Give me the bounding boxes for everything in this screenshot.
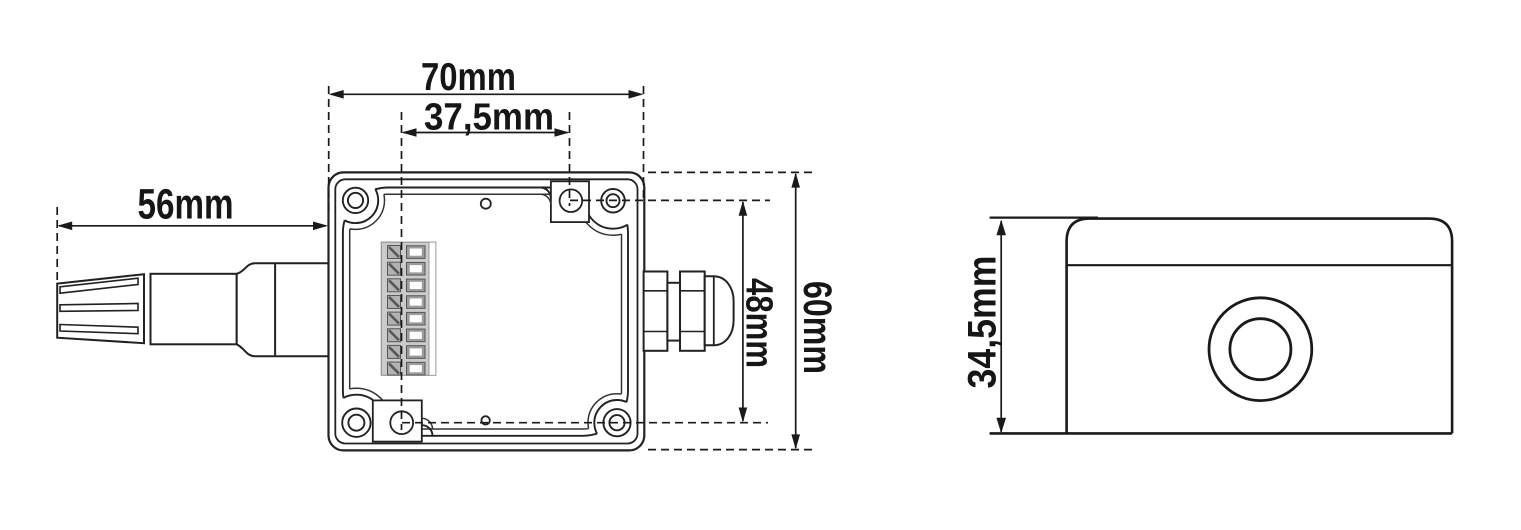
side view gland hole inner: [1230, 319, 1291, 380]
corner screw bottom-right: [603, 409, 630, 436]
side view gland hole outer: [1209, 298, 1312, 401]
enclosure outer body: [329, 172, 645, 450]
lid recess outline outer line: [343, 188, 628, 436]
corner screw top-right: [601, 189, 625, 213]
lid recess outline inner line: [350, 194, 622, 429]
gland facet lines: [644, 291, 705, 332]
screw boss arcs outer: [328, 173, 641, 451]
probe collar seam: [274, 263, 276, 356]
probe collar: [237, 263, 330, 356]
gland cap seam: [713, 276, 715, 345]
lid small hole top: [481, 199, 491, 209]
mounting plate top-right: [551, 181, 589, 222]
dimension 37,5mm: [404, 132, 568, 134]
svg-text:70mm: 70mm: [421, 56, 516, 99]
dimension 34,5mm: [1000, 221, 1002, 432]
probe filter tip: [57, 274, 144, 343]
dimension 56mm: [59, 225, 326, 227]
side view top extension line: [990, 217, 1098, 219]
terminal block: [381, 242, 436, 375]
svg-text:56mm: 56mm: [138, 180, 234, 228]
terminal block contacts column: [407, 246, 426, 375]
cable gland body: [644, 272, 705, 351]
corner screw top-left: [343, 188, 368, 213]
dimension 48mm: [742, 202, 744, 421]
probe cylinder: [151, 274, 237, 345]
corner screw bottom-left: [342, 409, 370, 437]
plate fillet curves bottom-left: [422, 425, 433, 436]
lid small hole bottom: [481, 416, 489, 424]
dashed extension lines: [57, 86, 812, 450]
mounting hole top-right: [560, 189, 583, 212]
enclosure rim (lid edge): [335, 179, 637, 443]
side view body: [1067, 219, 1453, 434]
mounting plate bottom-left: [373, 400, 422, 441]
screw boss arcs inner: [322, 166, 648, 457]
side view bottom line: [990, 432, 1453, 435]
side view lid seam: [1067, 264, 1453, 266]
svg-text:37,5mm: 37,5mm: [424, 97, 554, 139]
svg-text:60mm: 60mm: [795, 281, 839, 374]
mounting hole bottom-left: [390, 411, 413, 434]
svg-text:34,5mm: 34,5mm: [961, 256, 1005, 389]
svg-text:48mm: 48mm: [738, 278, 780, 368]
plate fillet curves top-right: [540, 188, 551, 199]
dimension 70mm: [331, 93, 641, 95]
dimension 60mm: [795, 174, 797, 448]
gland dome cap: [705, 276, 734, 345]
terminal block screws column: [388, 246, 401, 376]
